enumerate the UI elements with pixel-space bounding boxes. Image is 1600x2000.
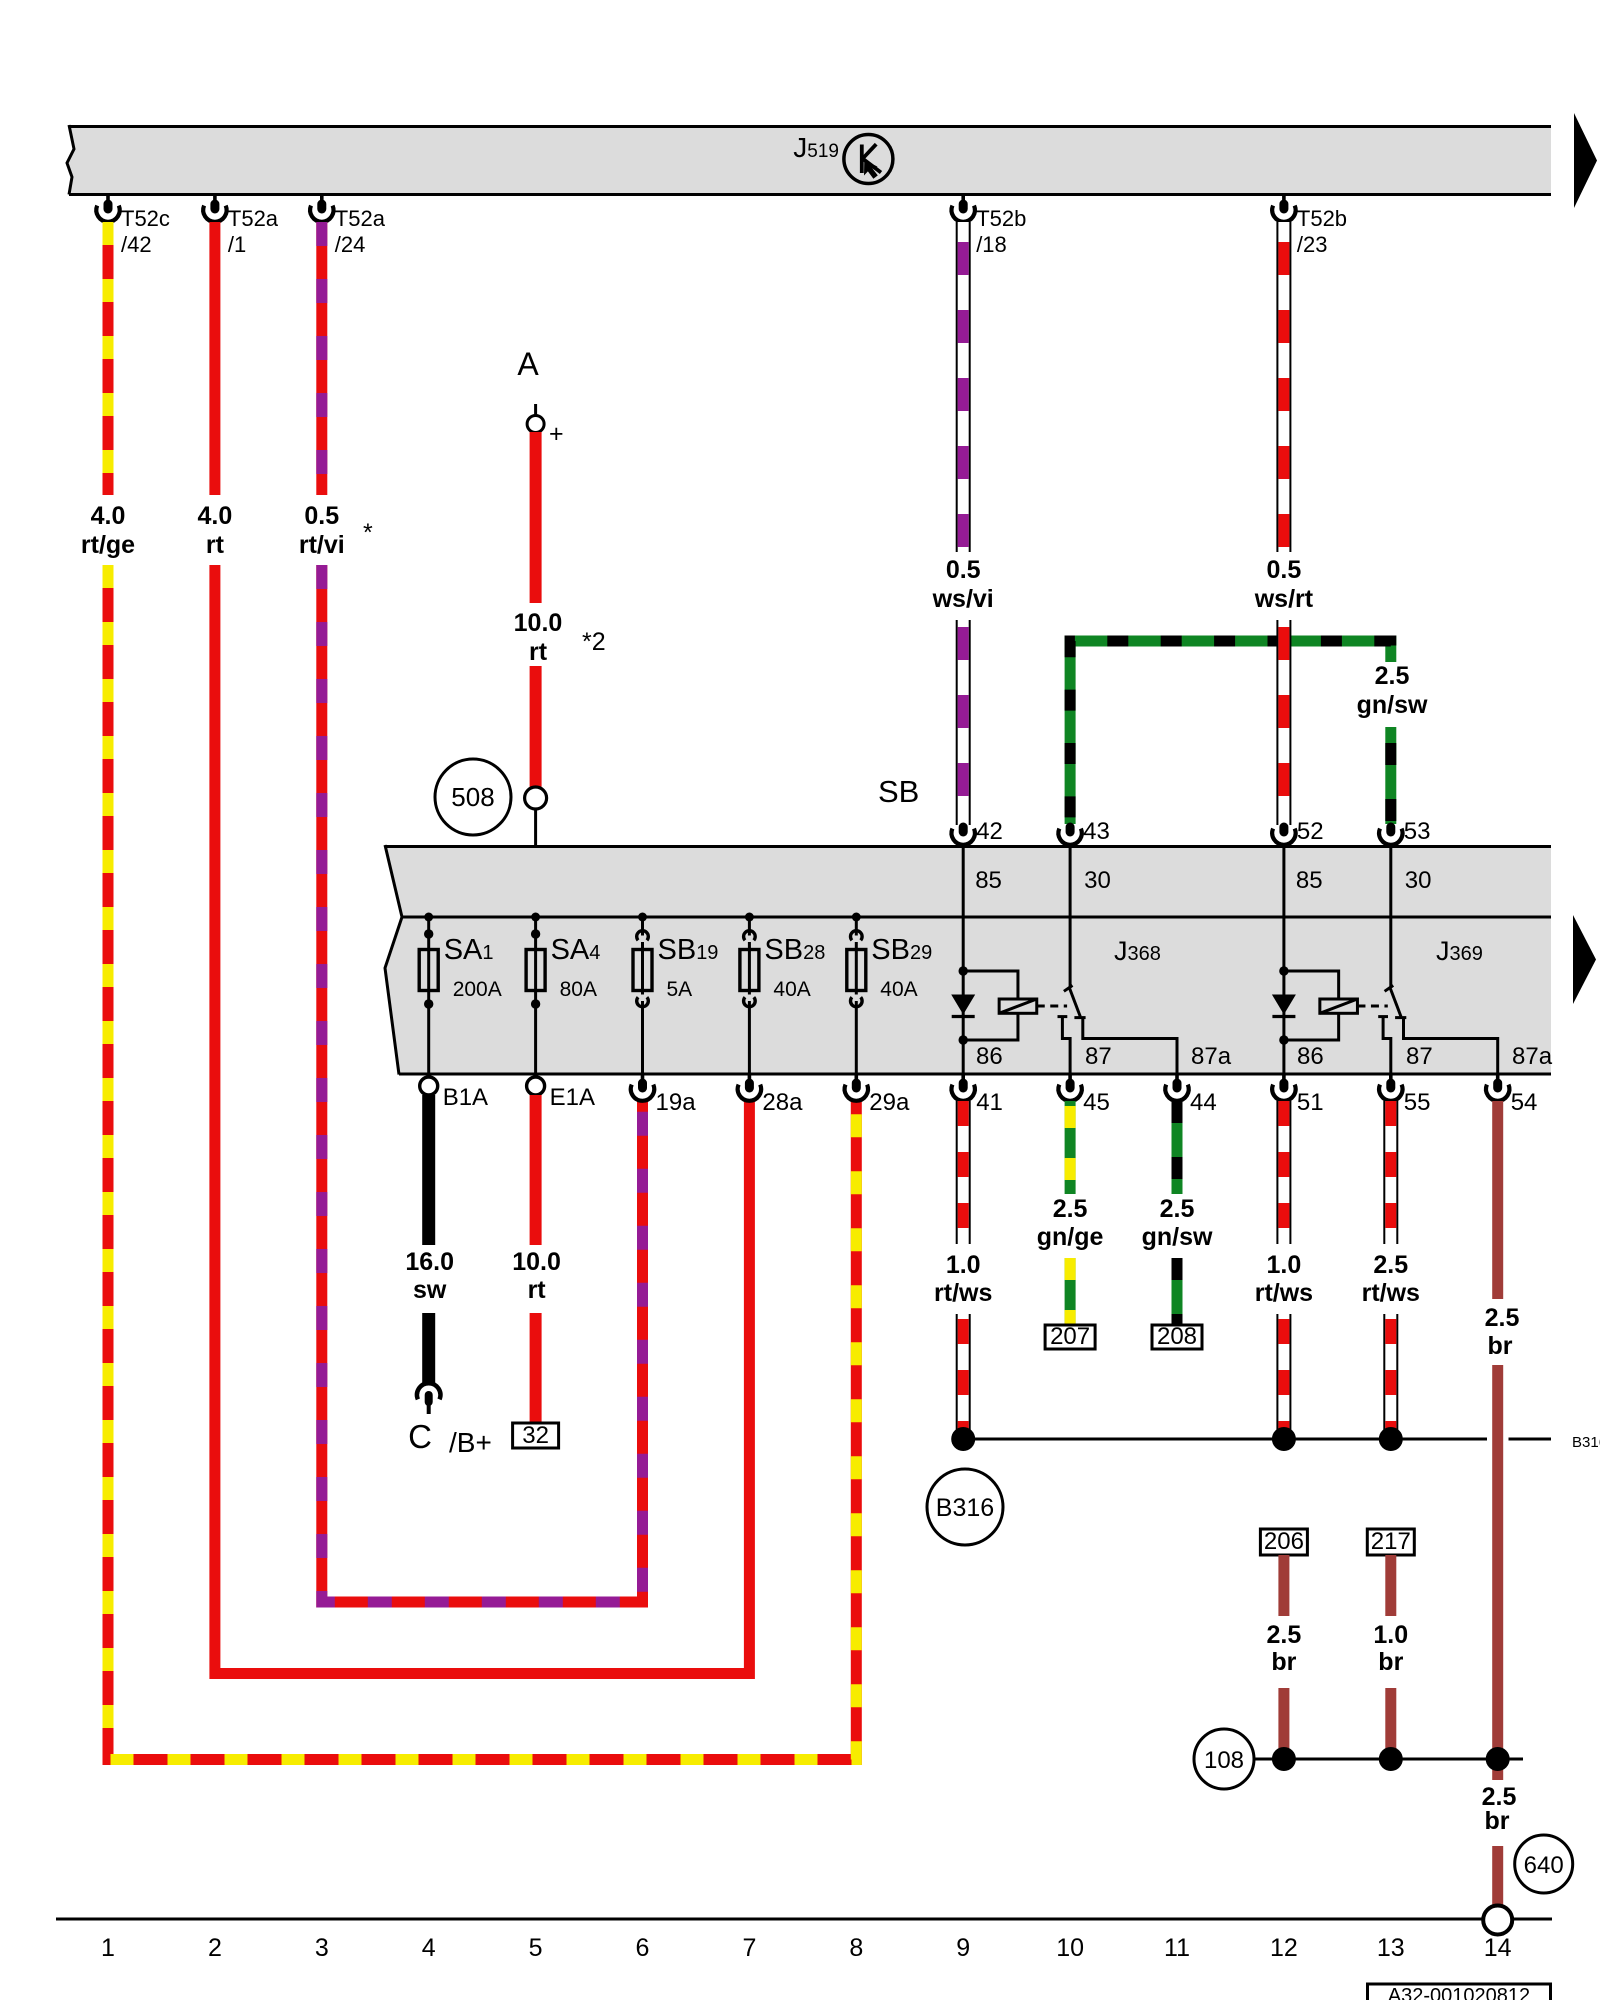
svg-text:T52a: T52a [228, 206, 279, 231]
arrow continuation right (middle) [1573, 915, 1596, 1004]
contact 87a branch of J368 [1083, 1018, 1177, 1073]
svg-text:87a: 87a [1191, 1043, 1232, 1070]
svg-text:55: 55 [1404, 1089, 1431, 1116]
svg-text:2.5: 2.5 [1160, 1195, 1195, 1223]
svg-text:217: 217 [1371, 1528, 1411, 1555]
svg-text:40A: 40A [773, 978, 810, 1001]
svg-text:45: 45 [1083, 1089, 1110, 1116]
fuse SB28 40A [748, 917, 751, 1073]
wire 4.0 rt (col2, loop to 28a) [209, 222, 220, 495]
terminal T52b/18 [952, 196, 975, 222]
svg-text:br: br [1488, 1332, 1513, 1360]
K diagnosis icon [844, 135, 893, 184]
svg-text:7: 7 [742, 1934, 756, 1962]
junction line B316 [963, 1438, 1487, 1441]
junction node at 206/108 [1272, 1747, 1296, 1771]
wire 2.5 rt/ws (55) [1383, 1101, 1398, 1244]
svg-text:A: A [517, 346, 539, 382]
svg-text:13: 13 [1377, 1934, 1405, 1962]
svg-text:28a: 28a [762, 1089, 803, 1116]
connector box 217 [1367, 1529, 1414, 1555]
svg-text:/1: /1 [228, 232, 246, 257]
terminal 51 [1272, 1075, 1295, 1101]
svg-text:5: 5 [529, 1934, 543, 1962]
svg-text:A32-001020812: A32-001020812 [1388, 1985, 1530, 2000]
drawing number box A32-001020812 [1368, 1984, 1551, 2000]
svg-text:42: 42 [976, 818, 1003, 845]
terminal E1A [527, 1077, 545, 1095]
wire 16.0 sw (B1A to C) [422, 1095, 435, 1245]
svg-text:rt/vi: rt/vi [299, 531, 345, 559]
svg-text:T52b: T52b [1297, 206, 1347, 231]
svg-text:87: 87 [1406, 1043, 1433, 1070]
svg-text:T52c: T52c [121, 206, 170, 231]
svg-text:T52a: T52a [335, 206, 386, 231]
svg-text:1.0: 1.0 [946, 1251, 981, 1279]
fuse SA1 200A [427, 917, 430, 1073]
svg-text:44: 44 [1190, 1089, 1217, 1116]
svg-text:/18: /18 [976, 232, 1007, 257]
terminal T52b/23 [1272, 196, 1295, 222]
svg-text:30: 30 [1084, 867, 1111, 894]
svg-text:ws/rt: ws/rt [1254, 585, 1314, 613]
svg-text:40A: 40A [880, 978, 917, 1001]
svg-text:206: 206 [1264, 1528, 1304, 1555]
svg-text:2: 2 [208, 1934, 222, 1962]
fuse SA4 80A [534, 917, 537, 1073]
junction node at 41/B316 [951, 1427, 975, 1451]
svg-text:1.0: 1.0 [1373, 1621, 1408, 1649]
svg-text:508: 508 [451, 782, 494, 812]
svg-text:gn/sw: gn/sw [1142, 1223, 1213, 1251]
svg-text:11: 11 [1164, 1934, 1190, 1962]
svg-text:/B+: /B+ [449, 1427, 492, 1458]
contact 87 of J368 [1058, 1015, 1068, 1018]
terminal 54 [1486, 1075, 1509, 1101]
svg-text:10.0: 10.0 [512, 1248, 561, 1276]
relay coil of J368 [963, 971, 1018, 999]
actuation dashed link of J368 [1037, 1005, 1067, 1008]
wire 0.5 ws/rt (col12) [1276, 222, 1291, 552]
connector box 207 [1045, 1325, 1095, 1349]
svg-text:2.5: 2.5 [1373, 1251, 1408, 1279]
svg-text:85: 85 [1296, 867, 1323, 894]
wire 0.5 ws/vi (col9) [956, 222, 971, 552]
svg-text:sw: sw [413, 1276, 447, 1304]
svg-text:gn/sw: gn/sw [1357, 691, 1428, 719]
wire 1.0 rt/ws (41 to B316 node) [956, 1101, 971, 1244]
diode of J369 [1272, 995, 1296, 1015]
terminal SB 53 [1379, 827, 1402, 845]
108 label circle [1194, 1729, 1254, 1789]
svg-text:207: 207 [1050, 1323, 1090, 1350]
svg-text:30: 30 [1405, 867, 1432, 894]
svg-text:8: 8 [849, 1934, 863, 1962]
svg-text:rt/ws: rt/ws [1255, 1279, 1313, 1307]
relay switch of J369 [1389, 845, 1392, 988]
svg-text:52: 52 [1297, 818, 1324, 845]
svg-text:/42: /42 [121, 232, 152, 257]
svg-text:208: 208 [1157, 1323, 1197, 1350]
svg-text:9: 9 [956, 1934, 970, 1962]
svg-text:86: 86 [976, 1043, 1003, 1070]
terminal 19a [631, 1075, 654, 1101]
svg-text:0.5: 0.5 [304, 502, 339, 530]
640 label circle [1515, 1835, 1573, 1893]
connector box 206 [1260, 1529, 1307, 1555]
svg-text:29a: 29a [869, 1089, 910, 1116]
node 508 (threaded connection) [525, 787, 547, 809]
svg-text:3: 3 [315, 1934, 329, 1962]
terminal 44 [1165, 1075, 1188, 1101]
svg-text:0.5: 0.5 [946, 556, 981, 584]
wire 2.5 gn/ge (45 to 207) [1065, 1101, 1076, 1194]
svg-text:53: 53 [1404, 818, 1431, 845]
svg-text:86: 86 [1297, 1043, 1324, 1070]
contact 87 of J369 [1378, 1015, 1388, 1018]
terminal SB 42 [951, 827, 974, 845]
svg-text:rt: rt [528, 1276, 547, 1304]
svg-text:rt: rt [529, 638, 548, 666]
svg-text:B1A: B1A [443, 1084, 488, 1111]
fuse SB19 5A [641, 917, 644, 1073]
svg-text:gn/ge: gn/ge [1037, 1223, 1104, 1251]
svg-text:br: br [1378, 1648, 1403, 1676]
terminal T52c/42 [96, 196, 119, 222]
wire 2.5 br (54 down to ground 640) [1492, 1101, 1503, 1299]
svg-text:rt/ws: rt/ws [1362, 1279, 1420, 1307]
svg-text:200A: 200A [453, 978, 502, 1001]
svg-text:SB: SB [878, 774, 919, 809]
svg-text:T52b: T52b [976, 206, 1026, 231]
B316 label circle [927, 1469, 1003, 1545]
svg-text:/23: /23 [1297, 232, 1328, 257]
wire 2.5 gn/sw (bridge 43 to 53) [1070, 641, 1391, 824]
svg-text:2.5: 2.5 [1053, 1195, 1088, 1223]
svg-text:B316: B316 [936, 1494, 994, 1522]
508 label circle [435, 759, 511, 835]
svg-text:80A: 80A [560, 978, 597, 1001]
svg-text:br: br [1271, 1648, 1296, 1676]
svg-text:19a: 19a [656, 1089, 697, 1116]
junction node at 55/B316 [1379, 1427, 1403, 1451]
internal bus line [402, 916, 1551, 919]
terminal SB 43 [1058, 827, 1081, 845]
svg-text:640: 640 [1524, 1852, 1564, 1879]
svg-text:16.0: 16.0 [405, 1248, 454, 1276]
terminal 29a [845, 1075, 868, 1101]
wire 4.0 rt/ge (col1, with big loop to 29a) [103, 222, 114, 495]
svg-text:4: 4 [422, 1934, 436, 1962]
svg-text:C: C [408, 1418, 432, 1455]
svg-text:*2: *2 [582, 628, 606, 656]
actuation dashed link of J369 [1357, 1005, 1387, 1008]
terminal T52a/1 [203, 196, 226, 222]
wire 2.5 gn/sw (44 to 208) [1172, 1101, 1183, 1194]
svg-text:12: 12 [1270, 1934, 1298, 1962]
svg-text:1.0: 1.0 [1267, 1251, 1302, 1279]
wire 0.5 rt/vi (col3, loop to 19a) [316, 222, 327, 495]
svg-text:10.0: 10.0 [514, 609, 563, 637]
svg-text:rt/ws: rt/ws [934, 1279, 992, 1307]
ground terminal at 14 [1483, 1906, 1512, 1935]
svg-text:2.5: 2.5 [1485, 1304, 1520, 1332]
svg-text:4.0: 4.0 [91, 502, 126, 530]
svg-text:B316: B316 [1572, 1434, 1600, 1451]
junction node at 51/B316 [1272, 1427, 1296, 1451]
svg-text:E1A: E1A [550, 1084, 595, 1111]
wire 1.0 rt/ws (51) [1276, 1101, 1291, 1244]
svg-text:108: 108 [1204, 1747, 1244, 1774]
svg-text:*: * [363, 519, 373, 547]
terminal SB 52 [1272, 827, 1295, 845]
terminal B1A [420, 1077, 438, 1095]
terminal 28a [738, 1075, 761, 1101]
svg-text:2.5: 2.5 [1267, 1621, 1302, 1649]
svg-text:32: 32 [522, 1422, 549, 1449]
control unit J519 bar [67, 125, 1551, 196]
svg-text:+: + [549, 420, 564, 448]
svg-text:41: 41 [976, 1089, 1003, 1116]
terminal 55 [1379, 1075, 1402, 1101]
terminal 45 [1058, 1075, 1081, 1101]
relay J369 [1282, 845, 1285, 1073]
svg-text:43: 43 [1083, 818, 1110, 845]
svg-text:br: br [1485, 1807, 1510, 1835]
svg-text:rt: rt [206, 531, 225, 559]
svg-text:1: 1 [101, 1934, 115, 1962]
terminal 41 [951, 1075, 974, 1101]
svg-text:6: 6 [636, 1934, 650, 1962]
svg-text:10: 10 [1056, 1934, 1084, 1962]
fuse SB29 40A [855, 917, 858, 1073]
connector box 208 [1152, 1325, 1202, 1349]
wire 10.0 rt from A [530, 432, 542, 603]
diode of J368 [951, 995, 975, 1015]
svg-text:ws/vi: ws/vi [932, 585, 994, 613]
svg-text:/24: /24 [335, 232, 366, 257]
junction node at 217/108 [1379, 1747, 1403, 1771]
svg-text:85: 85 [975, 867, 1002, 894]
relay J368 [962, 845, 965, 1073]
svg-text:14: 14 [1484, 1934, 1512, 1962]
arrow continuation right (top) [1574, 113, 1597, 208]
junction node at 54/108 [1486, 1747, 1510, 1771]
wire 1.0 br (217 to 108) [1385, 1555, 1396, 1616]
svg-text:51: 51 [1297, 1089, 1324, 1116]
junction line 108 [1254, 1758, 1523, 1761]
svg-text:54: 54 [1511, 1089, 1538, 1116]
terminal C [417, 1383, 440, 1399]
relay coil of J369 [1284, 971, 1339, 999]
svg-text:0.5: 0.5 [1267, 556, 1302, 584]
contact 87a branch of J369 [1404, 1018, 1498, 1073]
fuse/relay carrier SB bar [385, 845, 1551, 1075]
svg-text:87a: 87a [1512, 1043, 1553, 1070]
bottom frame line [56, 1918, 1552, 1921]
svg-text:rt/ge: rt/ge [81, 531, 135, 559]
wire 2.5 br (206 to 108) [1278, 1555, 1289, 1616]
connector box 32 [513, 1423, 559, 1448]
wire 10.0 rt (E1A to 32) [530, 1095, 542, 1245]
svg-text:4.0: 4.0 [198, 502, 233, 530]
svg-text:5A: 5A [667, 978, 693, 1001]
relay switch of J368 [1069, 845, 1072, 988]
svg-text:2.5: 2.5 [1375, 662, 1410, 690]
svg-text:87: 87 [1085, 1043, 1112, 1070]
terminal T52a/24 [310, 196, 333, 222]
